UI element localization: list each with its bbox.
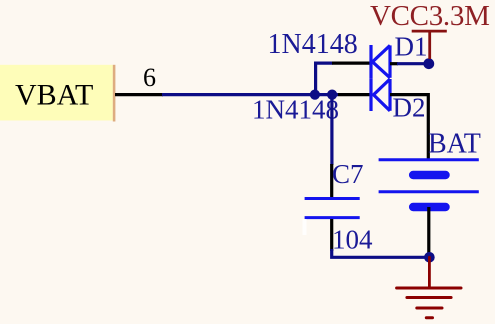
diode D1: [371, 45, 390, 78]
power port GND: [397, 257, 461, 317]
pin 6 wire segment: [115, 93, 163, 96]
svg-text:VBAT: VBAT: [15, 79, 93, 112]
wire capacitor to ground node: [332, 249, 429, 257]
svg-text:1N4148: 1N4148: [268, 29, 358, 60]
svg-text:104: 104: [332, 225, 373, 255]
wire port to junction: [162, 93, 338, 96]
pin C7 top: [330, 164, 333, 198]
svg-text:C7: C7: [332, 159, 364, 189]
port VBAT right border: [113, 65, 116, 122]
wire junction up and over to D1: [316, 63, 333, 95]
pin D1 anode: [332, 61, 371, 64]
wire capacitor branch down from junction: [330, 95, 333, 165]
node junction dot 2: [327, 90, 337, 100]
node VCC dot: [423, 58, 434, 69]
capacitor C7: [305, 199, 360, 218]
pin D1 cathode stub: [390, 62, 398, 65]
node junction dot 1: [310, 90, 320, 100]
pin D2 anode: [338, 93, 371, 96]
svg-text:VCC3.3M: VCC3.3M: [370, 0, 490, 32]
diode D2: [371, 78, 390, 111]
pin C7 bottom: [330, 219, 333, 251]
svg-text:6: 6: [143, 63, 156, 92]
power port VCC3.3M: [412, 31, 447, 59]
wire D2 to battery: [390, 95, 428, 160]
wire battery to ground node: [427, 207, 430, 254]
svg-text:1N4148: 1N4148: [252, 94, 339, 124]
white artifact near C7 plate: [303, 219, 307, 235]
battery BAT: [379, 160, 479, 207]
port VBAT: [0, 65, 113, 121]
svg-text:D2: D2: [393, 93, 426, 123]
wire D1 to VCC node: [397, 62, 426, 65]
node ground junction dot: [424, 252, 435, 263]
svg-text:D1: D1: [395, 32, 428, 62]
svg-text:BAT: BAT: [428, 129, 481, 160]
